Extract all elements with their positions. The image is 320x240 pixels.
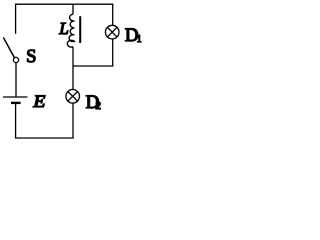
wire bottom horizontal <box>15 137 74 139</box>
svg-text:1: 1 <box>137 34 142 45</box>
switch S lever <box>3 37 14 58</box>
wire D2 to bottom corner <box>72 103 74 138</box>
wire D1 to connector <box>112 39 114 66</box>
wire right branch top (corner to D1) <box>112 4 114 25</box>
battery E short plate <box>11 102 21 104</box>
lamp D1 cross <box>107 27 117 37</box>
lamp D2 circle <box>66 90 80 104</box>
svg-text:E: E <box>32 91 45 111</box>
switch S contact circle <box>13 57 18 62</box>
battery E long plate <box>3 96 28 98</box>
wire top horizontal <box>15 3 113 5</box>
inductor core bar <box>79 16 81 43</box>
lamp D1 circle <box>105 25 119 39</box>
wire battery to bottom corner <box>15 104 17 138</box>
inductor L coil <box>67 14 74 47</box>
wire middle branch top stub <box>72 4 74 14</box>
svg-text:L: L <box>58 19 68 38</box>
lamp D2 cross <box>68 92 78 102</box>
wire connector horizontal <box>73 65 113 67</box>
svg-text:2: 2 <box>96 100 102 112</box>
svg-text:S: S <box>26 47 36 67</box>
wire switch to battery <box>15 63 17 97</box>
wire middle branch coil to D2 <box>72 47 74 90</box>
wire left upper (corner to switch stub) <box>15 4 17 34</box>
